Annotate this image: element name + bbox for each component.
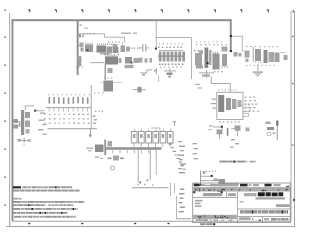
resistor R4 xyxy=(275,53,280,63)
IC U5 tall xyxy=(205,48,212,69)
parts x221-229 xyxy=(221,47,228,68)
wire vertical x104 xyxy=(103,34,106,38)
diode D1 xyxy=(164,69,176,78)
capacitor C2 group xyxy=(125,57,140,68)
IC U4 xyxy=(105,55,122,65)
dashes x131-140 y47 xyxy=(131,48,139,49)
left bottom cells xyxy=(193,218,237,222)
marks x94-105 y156 xyxy=(95,157,103,160)
relay bank K2 xyxy=(131,132,173,144)
revision arrow right border xyxy=(293,199,295,202)
IC U2 dense mass xyxy=(97,44,118,55)
cluster C top labels xyxy=(196,41,222,42)
IC U1 xyxy=(85,43,93,52)
tick x174 y121 xyxy=(173,121,176,126)
cluster B lower marks xyxy=(159,64,184,68)
wire vertical x242 xyxy=(241,36,244,52)
junction dots below bank xyxy=(139,180,148,184)
cluster B labels xyxy=(158,47,182,48)
wire x150 down xyxy=(149,150,152,180)
wire K1 top xyxy=(25,106,34,111)
scale text xyxy=(200,223,215,225)
U9 below-box pin row xyxy=(219,121,240,122)
wire x91 y85-128 xyxy=(90,85,93,128)
part x120-130 xyxy=(121,42,131,52)
title header band xyxy=(193,187,290,192)
label text y33 x84-96 xyxy=(84,33,95,34)
wire drop x90 with arrow xyxy=(89,128,92,137)
sheet outer border left xyxy=(8,13,11,227)
sheet inner border bottom xyxy=(12,220,291,223)
IC U7 xyxy=(264,50,275,63)
stubs bank-bus xyxy=(134,143,171,147)
transistor Q1 xyxy=(231,126,241,137)
spares note text xyxy=(220,161,256,163)
wire y52 x280-285 xyxy=(280,51,285,54)
transistor symbol x140-152 y70 xyxy=(140,70,152,76)
cluster B cap bank xyxy=(158,50,185,61)
vertical bus x105 y64-80 xyxy=(91,62,113,80)
capacitor C1 symbol xyxy=(139,44,150,52)
lower-left resistor on bus xyxy=(76,56,83,68)
mark x158 y75-82 xyxy=(157,76,160,83)
marks x96-104 y110 xyxy=(95,111,103,112)
marks x230-240 y138-148 xyxy=(230,139,239,148)
right bar y204 xyxy=(240,201,290,207)
parts x233-242 y52 xyxy=(234,52,242,57)
grid column labels (bottom) xyxy=(28,223,169,224)
wire x253 xyxy=(252,47,255,62)
bus wire top horizontal xyxy=(12,19,232,21)
wire vertical x191 xyxy=(190,37,193,79)
net labels x178-190 xyxy=(178,141,186,173)
U9 left stubs xyxy=(211,99,217,109)
small parts x137-152 y57 xyxy=(139,58,152,63)
bus wire vertical x231 xyxy=(230,19,232,51)
wire x156 down xyxy=(155,150,158,175)
wire x170 xyxy=(169,183,172,196)
right cluster lower labels xyxy=(246,65,275,66)
gray bar x225-239 y183 xyxy=(225,183,239,186)
bus wire vertical x77 xyxy=(77,20,79,75)
ground GND1 xyxy=(253,64,264,76)
cluster C labels xyxy=(196,44,227,45)
resistor R5 + stub xyxy=(78,43,84,52)
wire dashes left of bus xyxy=(86,148,93,152)
company name dark xyxy=(244,192,285,199)
wire y187.5 x132-168 xyxy=(132,186,169,189)
IC U6 xyxy=(213,52,220,70)
right separators xyxy=(237,209,290,223)
dark bar x227 y128 xyxy=(227,128,229,136)
junction (35,110.5) xyxy=(34,110,36,112)
power bus y147.5 xyxy=(105,147,162,150)
IC U9 box outline xyxy=(217,92,243,119)
power rail x200 xyxy=(200,171,216,186)
junction (231,51) xyxy=(230,50,232,52)
junction (231,36) xyxy=(230,35,232,37)
tick label x80 y24 xyxy=(80,24,89,28)
junction (208,63) xyxy=(207,62,209,64)
notes line4 xyxy=(13,204,74,206)
bus ripper diagonal xyxy=(169,144,186,170)
crystal Z1 xyxy=(108,156,125,171)
drawn/checked row xyxy=(193,192,237,198)
junction (156,48.5) xyxy=(155,48,157,50)
marks x95-105 y93 xyxy=(94,93,103,94)
sheet outer border bottom xyxy=(6,225,295,228)
wire y36.8 x104-124 xyxy=(104,36,125,39)
lead grid xyxy=(44,114,89,124)
left band y215 xyxy=(193,215,237,219)
long wire y128.5 xyxy=(48,127,98,130)
notes line6 xyxy=(13,212,67,214)
sheet cell xyxy=(264,218,289,220)
doc number cell xyxy=(239,217,261,220)
crystal Y2 xyxy=(133,86,146,93)
right cluster labels xyxy=(246,46,278,47)
small box outlines x242-251 y107-117 xyxy=(241,105,250,117)
wire y185 xyxy=(194,184,238,186)
label text y32 x121-137 xyxy=(121,33,137,34)
sheet inner border right xyxy=(290,11,293,221)
grid row labels (right) xyxy=(292,36,294,146)
wire y37.5 x156-191 xyxy=(156,36,192,39)
crystal Y1 xyxy=(199,70,214,78)
U9 labels above xyxy=(218,90,236,91)
wire vertical x124 xyxy=(123,37,126,43)
notes line2 xyxy=(13,190,80,192)
wire y126.8 + junction xyxy=(213,126,223,134)
wire elbow x176-190 y218 xyxy=(176,196,191,219)
ladder labels xyxy=(48,94,90,95)
wire y36 x231-242 xyxy=(230,35,243,38)
transistor Q2 xyxy=(217,130,223,140)
grid column labels (top) xyxy=(5,9,294,12)
IC U8 xyxy=(101,78,122,92)
resistor R3 xyxy=(245,51,250,63)
sheet inner border left xyxy=(12,19,14,221)
dashes x38-46 y119-136 xyxy=(38,120,47,135)
notes line1 xyxy=(13,186,72,188)
pin labels x178-184 xyxy=(179,189,185,213)
stubs above bank xyxy=(134,129,171,132)
marks x215-222 y71 xyxy=(214,71,223,72)
stubs below bus xyxy=(112,150,156,154)
net labels x192-199 xyxy=(193,143,199,159)
U9 inner blocks xyxy=(218,95,241,112)
zigzag x92-97 xyxy=(93,116,98,124)
grid row labels (left) xyxy=(4,37,6,206)
elbow wire x151-160 y127.6 xyxy=(151,128,160,132)
transformer T1 symbol xyxy=(18,138,31,146)
pin squares x79-84 y34 xyxy=(79,34,84,37)
wire right of junction xyxy=(35,110,45,113)
junction dots on band xyxy=(193,191,223,193)
notes line7 xyxy=(14,216,76,218)
mark x155-158 y68 xyxy=(154,68,157,75)
title rev row xyxy=(194,184,289,187)
label F xyxy=(246,128,250,132)
capacitor C3 xyxy=(255,49,262,63)
notes line3 xyxy=(13,201,85,203)
sheet outer border right xyxy=(293,11,296,227)
marks x209-214 y125-130 xyxy=(209,125,213,130)
connector P1 pins xyxy=(14,119,21,129)
bus left parts xyxy=(95,140,112,156)
title block outline xyxy=(193,183,291,223)
notes line5 xyxy=(13,208,78,210)
relay K1 body xyxy=(21,110,30,135)
U9 pin dashes right xyxy=(245,97,260,112)
wire vertical x156 xyxy=(155,20,158,49)
net labels x194-203 y83-90 xyxy=(195,84,202,89)
left small text xyxy=(195,200,203,207)
wire L y81-84 xyxy=(211,77,231,93)
drawing title text xyxy=(240,210,288,213)
resistor ladder RN1 xyxy=(49,97,89,104)
ladder stubs xyxy=(49,108,88,111)
parts x194-203 xyxy=(194,50,203,69)
wire x174 xyxy=(173,183,176,193)
wire y33.5 x79-104 xyxy=(79,33,105,36)
wire y176 xyxy=(200,175,213,177)
wire x138 down xyxy=(137,150,140,183)
part x283-288 xyxy=(284,55,288,60)
dark mark x277 y121 xyxy=(276,121,278,126)
IC U3 xyxy=(108,42,120,54)
title sep x237 xyxy=(236,192,239,223)
cap bank C4 xyxy=(266,122,278,141)
IC U4 labels xyxy=(104,54,119,55)
notes heading2 xyxy=(13,198,22,200)
cluster B top labels xyxy=(159,43,183,44)
wire y180.5 xyxy=(200,179,225,185)
ladder bus y107.5 xyxy=(46,106,92,109)
ticks y184 xyxy=(137,184,153,186)
